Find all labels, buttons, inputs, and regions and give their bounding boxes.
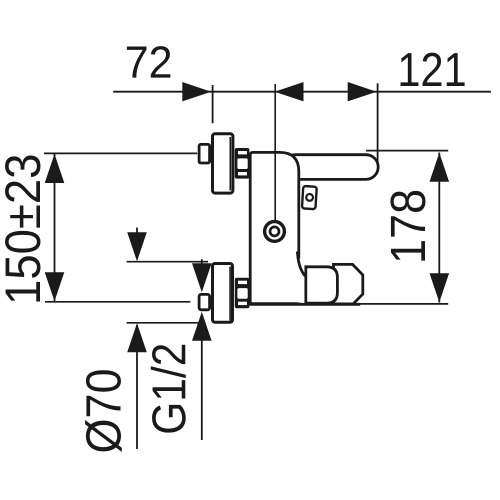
bottom wall flange (escutcheon)	[213, 264, 233, 323]
white gap: body lower-right edge removed	[297, 259, 304, 303]
handle lever bar	[283, 155, 378, 180]
arrow: 121 left-pointing at cartridge centerline	[275, 82, 304, 101]
bracket screw hole ring	[306, 194, 313, 201]
arrow: 178 down	[430, 273, 450, 302]
wire: bottom port center extension line	[45, 301, 190, 303]
label: 121	[401, 53, 465, 86]
wire: bottom flange inner edge line	[229, 267, 231, 321]
arrow: Ø70 up	[127, 323, 147, 352]
arrow: 72 dimension right-pointing	[182, 82, 211, 101]
wire: flange top edge extension tick y=261.7	[127, 261, 208, 263]
label: Ø70	[85, 370, 122, 452]
wire: 178 bottom extension line (spout bottom)	[351, 303, 448, 305]
wire: cartridge centerline x=275.2 down to screw	[274, 84, 276, 222]
cartridge screw outer ring	[265, 222, 285, 242]
bottom union nut	[235, 278, 250, 309]
faucet body	[250, 152, 299, 303]
wire: body+spout bottom edge	[249, 303, 360, 306]
wire: top horizontal dimension line	[113, 91, 491, 93]
wire: 178 vertical dimension line	[438, 153, 440, 303]
arrow: G1/2 up	[192, 312, 212, 341]
arrow: G1/2 down	[192, 263, 212, 292]
label: 72	[127, 46, 170, 78]
wire: Ø70 dimension line upper segment	[136, 228, 138, 260]
cartridge screw inner ring	[270, 227, 279, 236]
wire: G1/2 dimension line stub above	[201, 259, 203, 264]
bottom inlet port (wall pipe)	[199, 294, 210, 309]
arrow: 150±23 down	[45, 272, 65, 301]
wire: Ø70 dimension line lower segment	[136, 325, 138, 449]
node: extension tick at x=377.6 (handle end for 121)	[377, 83, 379, 166]
top wall flange (escutcheon)	[213, 134, 233, 193]
wire: body-to-spout fillet curve	[297, 252, 305, 277]
spout inner collar	[306, 267, 338, 303]
wire: 150±23 vertical dimension line	[54, 154, 56, 302]
label: 178	[390, 191, 425, 261]
spout outer cap (chamfered)	[334, 264, 363, 304]
label: G1/2	[151, 345, 186, 433]
top inlet port (wall pipe)	[199, 144, 210, 163]
node: extension tick at x=212.6 (wall plane for 72)	[212, 85, 214, 123]
top union nut	[235, 148, 250, 179]
arrow: 178 up	[430, 153, 450, 182]
mounting bracket with screw hole	[302, 186, 317, 209]
arrow: Ø70 down	[127, 232, 147, 261]
label: 150±23	[5, 156, 40, 302]
wire: top port center extension line	[44, 152, 197, 154]
wire: G1/2 dimension line lower segment	[201, 340, 203, 440]
wire: 178 top extension line (handle top)	[366, 150, 448, 152]
arrow: 150±23 up	[45, 154, 65, 183]
wire: top flange inner edge line	[229, 137, 231, 191]
arrow: 121 right-pointing at handle end	[348, 82, 377, 101]
wire: flange bottom edge extension tick y=322.8	[127, 322, 203, 324]
